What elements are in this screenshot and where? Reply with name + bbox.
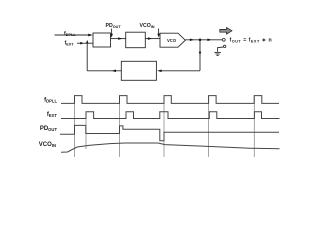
svg-text:fOUT = fEXT ∗ n: fOUT = fEXT ∗ n: [230, 38, 273, 44]
svg-text:VCO: VCO: [167, 38, 177, 43]
svg-text:VCOIN: VCOIN: [140, 23, 155, 29]
svg-text:fDPLL: fDPLL: [64, 31, 76, 37]
svg-text:PDOUT: PDOUT: [40, 126, 58, 132]
svg-text:fEXT: fEXT: [65, 40, 75, 46]
svg-text:PDOUT: PDOUT: [106, 23, 122, 29]
svg-text:fEXT: fEXT: [47, 112, 58, 118]
svg-text:VCOIN: VCOIN: [39, 142, 56, 148]
svg-text:fDPLL: fDPLL: [44, 97, 57, 103]
